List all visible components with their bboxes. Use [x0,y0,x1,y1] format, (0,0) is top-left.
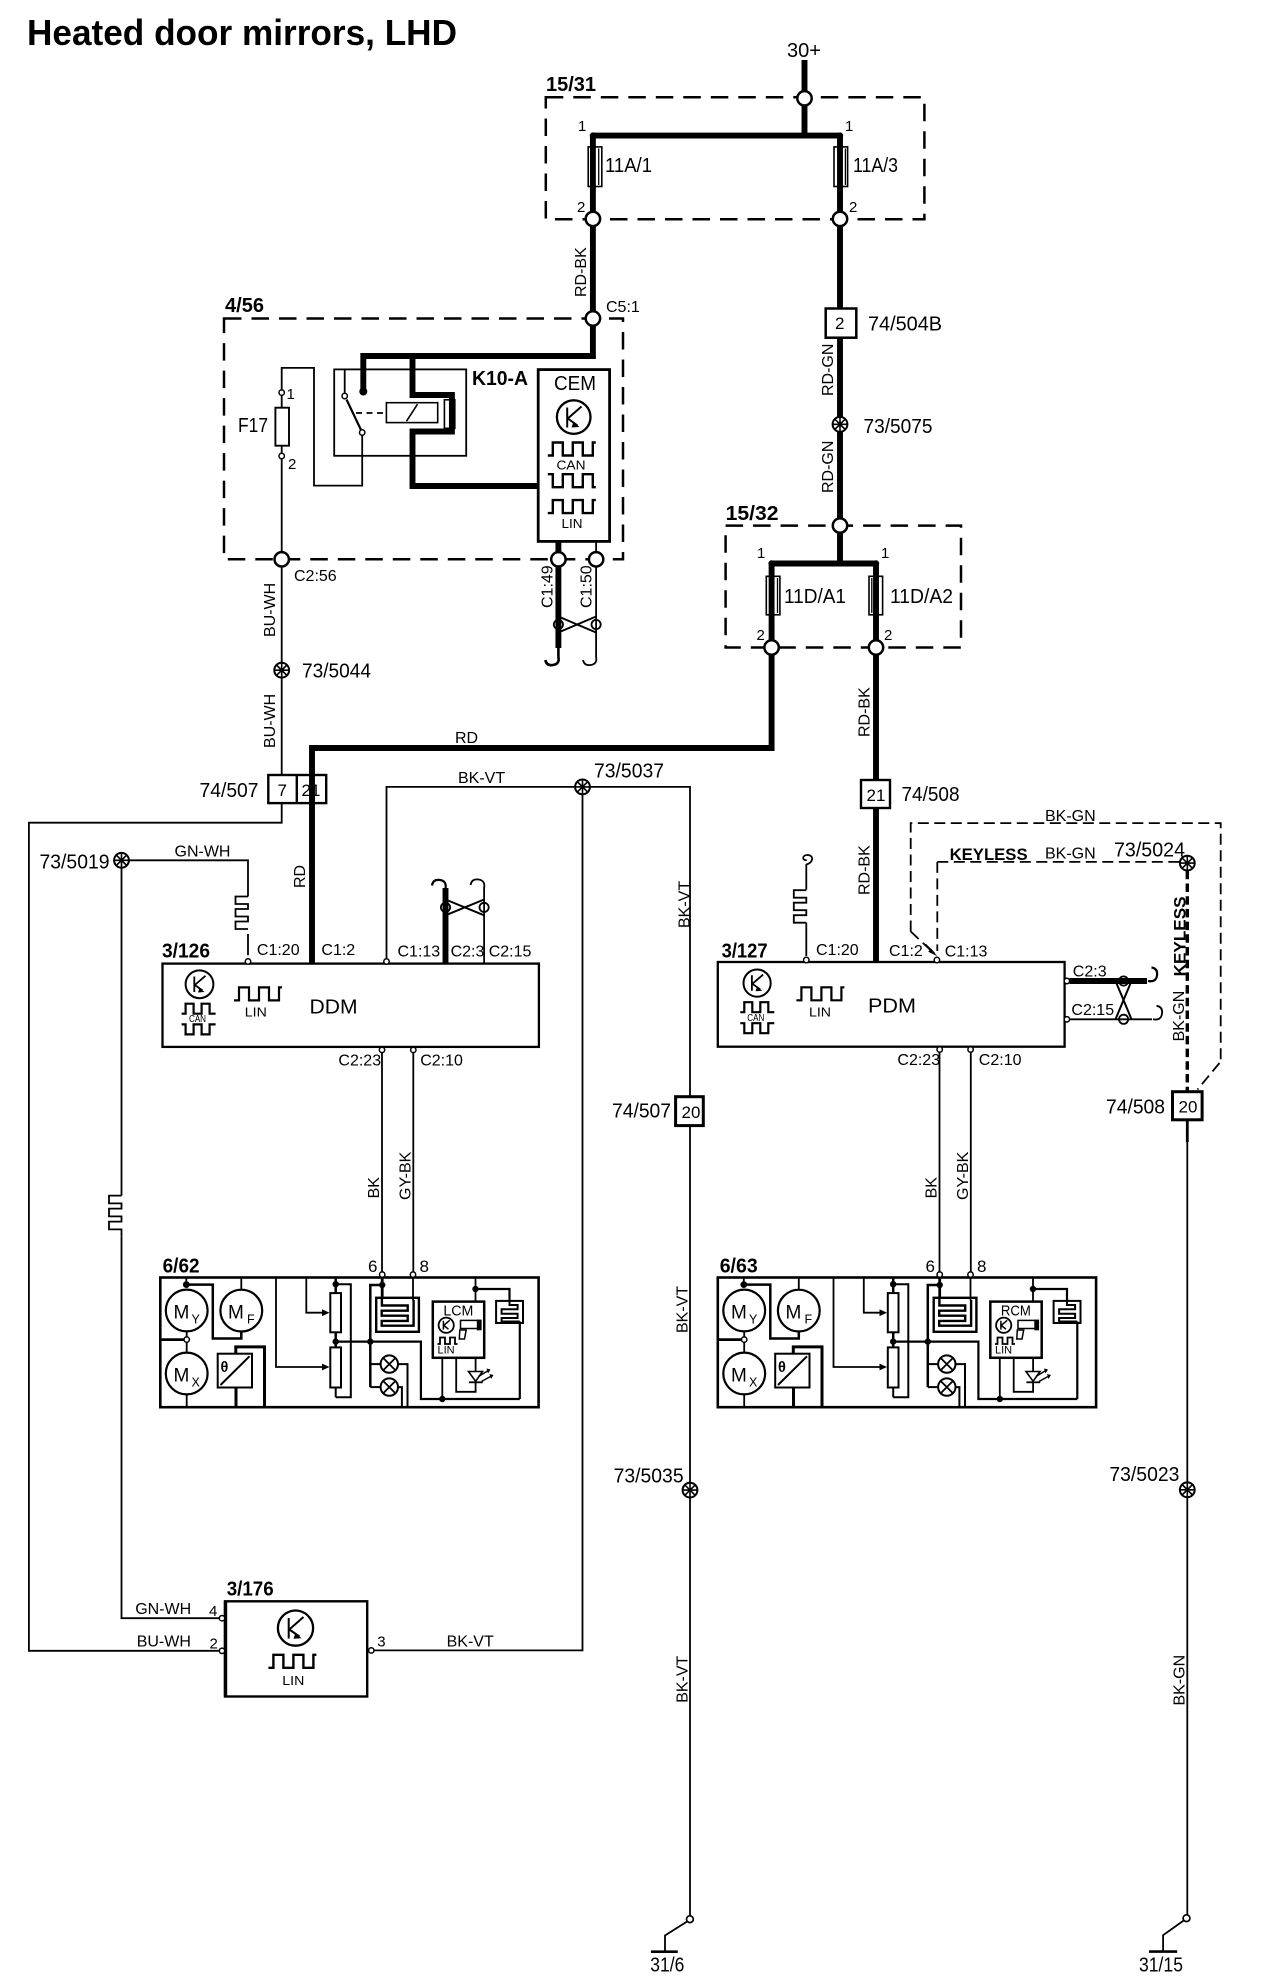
svg-text:C2:3: C2:3 [451,944,485,961]
svg-text:M: M [174,1366,190,1387]
svg-text:C2:56: C2:56 [294,568,337,585]
svg-text:1: 1 [757,545,765,562]
3/176 LIN symbol [268,1655,316,1668]
DDM CAN symbol [182,1004,216,1014]
svg-text:73/5075: 73/5075 [864,416,933,438]
coiled wire symbol on GN-WH run [109,1196,122,1237]
PDM LIN symbol [796,987,844,1000]
svg-text:PDM: PDM [868,996,916,1018]
relay switch arm [347,400,361,430]
svg-text:LIN: LIN [282,1673,304,1688]
wire 30+ feed [802,60,808,92]
fuse 11D/A1 [769,564,775,641]
connector 11D/A1 output [764,640,778,654]
svg-text:BK: BK [366,1177,383,1199]
ground 31/6 [687,1916,694,1923]
relay switch common pin [344,369,346,392]
connector 11D/A2 output [869,640,883,654]
control module CEM [538,370,609,542]
svg-text:GY-BK: GY-BK [397,1151,414,1200]
svg-text:C1:13: C1:13 [945,944,988,961]
svg-text:BK-VT: BK-VT [674,1655,691,1702]
svg-text:LIN: LIN [245,1005,267,1020]
connector 74/508 pin 21 [861,780,890,808]
wire case to junction [160,1338,184,1341]
warning lamp 1 [381,1355,398,1372]
DDM pin C2:10 [411,1047,416,1052]
wire coil feed to CEM [413,356,539,486]
svg-text:F: F [247,1313,255,1327]
connector C at 15/31 bottom left [586,212,600,226]
wire to warning lamp 1 [370,1363,380,1365]
node lamp feed junction [367,1338,373,1344]
wire MY junction to MF [186,1285,241,1339]
wire GY-BK DDM C2:10 to 6/62 pin 8 [412,1053,414,1272]
DDM pin C2:23 [379,1047,384,1052]
svg-text:GN-WH: GN-WH [175,844,231,861]
coiled wire symbol on C1:20 lead [236,897,249,930]
relay box 4/56 dashed outline [224,319,623,560]
svg-text:BK-GN: BK-GN [1045,846,1096,863]
svg-text:3/127: 3/127 [722,941,768,963]
door mirror assembly 6/62 [160,1257,538,1407]
potentiometer horizontal drive [330,1347,341,1387]
svg-text:C2:15: C2:15 [489,944,532,961]
fuse 11D/A2 [873,564,879,641]
wire PDM C2:3 CAN stub [1070,978,1147,984]
svg-text:RD: RD [292,865,309,888]
wire RD-BK from 11A/1 to C5:1 [590,226,596,311]
svg-text:RD-BK: RD-BK [573,247,590,297]
wire RD-GN [837,338,843,417]
svg-text:31/6: 31/6 [650,1955,684,1977]
motor MX (horizontal) [166,1353,208,1395]
LCM torch icon [461,1320,479,1328]
connector C5:1 [586,311,600,325]
svg-text:F17: F17 [238,415,268,437]
svg-text:BU-WH: BU-WH [137,1634,191,1651]
pigtail PDM C2:3 [1148,968,1157,982]
svg-text:2: 2 [577,199,585,216]
svg-text:Heated door mirrors, LHD: Heated door mirrors, LHD [27,12,457,53]
svg-text:73/5044: 73/5044 [302,661,371,683]
wire bus in 15/31 [593,133,840,139]
splice 73/5024 [1180,856,1195,871]
svg-text:2: 2 [835,314,844,333]
node MY top junction [183,1281,190,1288]
svg-text:4/56: 4/56 [225,295,264,317]
motor MY feed stub [185,1278,187,1285]
svg-text:20: 20 [1179,1098,1198,1117]
svg-text:CEM: CEM [554,373,596,395]
PDM pin C1:13 [934,957,939,962]
splice 73/5044 [274,663,289,678]
fuse 11A/1 [590,136,596,212]
svg-text:CAN: CAN [557,458,586,473]
svg-text:11A/1: 11A/1 [605,155,652,177]
svg-text:3: 3 [377,1634,385,1651]
svg-text:7: 7 [278,781,287,800]
connector 74/507 pins 7 and 21 [268,775,326,803]
pin 8 [410,1272,415,1277]
wire BK DDM C2:23 to 6/62 pin 6 [381,1053,383,1272]
svg-text:21: 21 [302,781,321,800]
svg-text:GY-BK: GY-BK [955,1151,972,1200]
motor MF top stub [240,1278,242,1290]
svg-text:15/31: 15/31 [546,74,596,96]
svg-text:2: 2 [849,199,857,216]
splice 73/5019 [114,853,129,868]
svg-text:BK-VT: BK-VT [676,881,693,928]
svg-text:4: 4 [209,1603,217,1620]
svg-text:2: 2 [757,627,765,644]
CEM pin C1:49 [555,541,561,552]
wire DDM C2:15 CAN stub [483,888,485,963]
svg-text:6/63: 6/63 [720,1256,758,1278]
motor MY (vertical) [166,1290,208,1332]
warning lamp 2 [370,1386,380,1388]
twisted pair symbol below CEM [554,620,563,629]
wire heater feed branch [370,1285,382,1387]
PDM pin C1:20 with open lead [804,957,809,962]
connector at 15/32 top [833,518,847,532]
svg-text:C1:2: C1:2 [321,942,355,959]
3/176 pin 3 [369,1648,374,1653]
wire BK-VT to ground [689,1498,691,1916]
DDM LIN symbol [234,987,282,1000]
svg-text:BK: BK [924,1177,941,1199]
wire RD-BK from 11D/A2 down [873,655,879,780]
svg-text:RCM: RCM [1001,1303,1031,1320]
relay coil end cap [444,400,454,429]
svg-text:15/32: 15/32 [726,503,779,525]
wire GY-BK PDM C2:10 to 6/63 pin 8 [970,1052,972,1272]
relay actuation dashed link [356,412,386,414]
wire pot junction to lamp feed [336,1342,520,1399]
svg-text:C2:10: C2:10 [420,1053,463,1070]
svg-text:1: 1 [578,118,586,135]
PDM pin C2:10 [968,1047,973,1052]
svg-text:BU-WH: BU-WH [262,694,279,748]
svg-text:X: X [192,1376,201,1390]
node pin 1 of 11D/A1 [768,560,774,566]
node pin 2 of 11D/A2 [873,624,879,630]
svg-text:11D/A1: 11D/A1 [784,586,846,608]
node LCM ground junction [439,1396,445,1402]
svg-text:C1:50: C1:50 [579,565,596,608]
connector 74/507 pin 20 [676,1097,704,1126]
svg-text:C1:20: C1:20 [257,942,300,959]
svg-text:LIN: LIN [809,1005,831,1020]
svg-text:KEYLESS: KEYLESS [1170,896,1189,976]
wire BU-WH from 74/507 pin 7 to 3/176 pin 2 [29,803,282,1651]
svg-text:CAN: CAN [189,1013,206,1025]
3/176 pin 2 [219,1648,224,1653]
keyless option outer dashed wire BK-GN [911,823,1221,1062]
3/176 K symbol [278,1611,313,1646]
wire MX to case [186,1394,188,1407]
svg-text:θ: θ [221,1360,229,1376]
wire C1:50 CAN lead [595,567,597,649]
ground 31/15 [1183,1915,1190,1922]
svg-text:K10-A: K10-A [472,368,528,390]
wire BK-VT DDM C1:13 to splice to 74/507 pin 20 [387,787,691,1097]
lamp control module box [433,1302,484,1358]
connector at 15/31 bottom right [833,212,847,226]
svg-text:DDM: DDM [310,997,358,1019]
svg-text:1: 1 [287,386,295,403]
wire BU-WH from C2:56 [281,567,283,663]
svg-text:6/62: 6/62 [163,1256,200,1278]
connector 74/508 pin 20 [1173,1092,1203,1120]
svg-text:LIN: LIN [562,516,583,531]
svg-text:C2:3: C2:3 [1073,963,1107,980]
node pin 2 of 11D/A1 [769,624,775,630]
svg-text:LIN: LIN [438,1345,455,1357]
DDM pin C1:13 [384,959,389,964]
svg-text:6: 6 [368,1257,377,1276]
DDM K symbol [186,970,214,998]
wire into 15/32 bus [770,533,877,564]
svg-text:Y: Y [192,1313,201,1327]
wire F17 to C2:56 [281,459,283,552]
splice 73/5035 [683,1483,698,1498]
wire BU-WH to 74/507 pin 7 [281,678,283,775]
fuse 11A/3 [837,136,843,212]
node relay feed terminal [359,388,367,396]
svg-text:LCM: LCM [443,1303,473,1320]
approach lamp heater element [496,1301,523,1323]
svg-text:C1:2: C1:2 [889,943,923,960]
svg-text:BU-WH: BU-WH [262,583,279,637]
LCM LIN symbol [438,1338,458,1345]
wire C1:49 CAN lead [555,567,561,649]
CEM LIN symbol [548,500,596,513]
mirror heater element [376,1298,419,1332]
svg-text:RD: RD [455,730,478,747]
wire BK-VT 74/507 pin 20 down [689,1126,691,1483]
wire DDM C2:3 CAN stub [443,888,449,963]
splice 73/5023 [1180,1482,1195,1497]
svg-text:RD-BK: RD-BK [857,687,874,737]
svg-text:BK-VT: BK-VT [675,1286,692,1333]
svg-text:C2:23: C2:23 [338,1053,381,1070]
svg-text:C5:1: C5:1 [606,299,640,316]
keyless option inner dashed wire [937,862,1180,951]
wire lamp module feed [475,1278,477,1302]
wire RD-GN lower [837,432,843,519]
door mirror module DDM 3/126 [163,964,539,1047]
CEM pin C1:50 [595,541,597,552]
svg-text:GN-WH: GN-WH [135,1601,191,1618]
svg-text:11D/A2: 11D/A2 [890,586,953,608]
PDM pin C2:15 [1064,1017,1069,1022]
svg-text:C2:15: C2:15 [1071,1002,1114,1019]
wire relay switch to F17 [282,368,363,486]
pigtail C1:49 [545,648,558,665]
wire BK-GN 74/508 pin 20 down [1186,1120,1189,1142]
svg-text:74/504B: 74/504B [868,314,942,336]
DDM pin C1:20 [245,959,250,964]
node pin 1 of 11A/3 [837,132,843,138]
twisted pair symbol right of PDM [1119,976,1128,985]
pin 6 [380,1272,385,1277]
svg-text:73/5023: 73/5023 [1109,1464,1179,1486]
svg-text:20: 20 [682,1103,701,1122]
wire into fuse box bus [802,105,808,138]
svg-text:3/126: 3/126 [162,941,210,963]
wire MY bottom to junction [186,1331,188,1336]
wiper arrow pot 2 [276,1278,322,1368]
node between potentiometers [334,1332,337,1347]
svg-text:KEYLESS: KEYLESS [950,845,1028,864]
svg-text:73/5035: 73/5035 [614,1466,684,1488]
wiper arrow pot 1 [306,1278,322,1313]
svg-text:21: 21 [867,786,886,805]
wire junction to MX [186,1342,188,1352]
svg-text:3/176: 3/176 [227,1579,274,1601]
fuse F17 [279,390,284,395]
wire BK-VT splice down to 3/176 pin 3 [374,794,583,1650]
svg-text:BK-GN: BK-GN [1172,1655,1189,1706]
motor MF (fold) [220,1290,262,1332]
svg-text:BK-VT: BK-VT [458,770,505,787]
svg-text:C1:49: C1:49 [540,565,557,608]
connector 74/504B pin 2 [826,309,857,338]
heater thermostat box [218,1354,252,1388]
door mirror assembly 6/63 (same internals as 6/62) [718,1257,1096,1407]
svg-text:74/507: 74/507 [200,780,259,802]
wire BK-GN to ground [1186,1497,1188,1915]
connector circle at 15/31 top [797,91,811,105]
wire RD-GN from 11A/3 down [837,226,843,308]
svg-text:2: 2 [288,456,296,473]
connector C2:56 [275,552,289,566]
wire GN-WH splice to DDM C1:20 [129,860,248,955]
node pin 2 of 11A/3 [837,195,842,200]
svg-text:1: 1 [845,118,853,135]
fuse box 15/31 dashed outline [546,97,925,219]
coiled wire symbol on PDM C1:20 lead [794,890,807,923]
svg-text:31/15: 31/15 [1139,1954,1183,1976]
LCM ground lead [441,1358,443,1399]
LCM K symbol [439,1318,454,1333]
svg-text:74/507: 74/507 [612,1101,671,1123]
svg-text:1: 1 [881,545,889,562]
wire GN-WH splice down to 3/176 pin 4 [122,868,220,1618]
svg-text:2: 2 [210,1636,218,1653]
wire BK PDM C2:23 to 6/63 pin 6 [939,1052,941,1272]
node pin 2 of 11A/1 [590,195,595,200]
svg-text:73/5024: 73/5024 [1114,840,1185,862]
pigtail PDM C2:15 [1153,1006,1162,1020]
node pin 1 of 11A/1 [590,132,596,138]
svg-text:C1:13: C1:13 [398,944,441,961]
twisted pair symbol above DDM [441,903,450,912]
splice 73/5037 [575,780,590,795]
svg-text:BK-GN: BK-GN [1171,991,1188,1042]
PDM pin C2:3 [1064,978,1069,983]
svg-text:CAN: CAN [747,1012,764,1024]
steering module 3/176 [225,1601,367,1696]
PDM pin C2:23 [937,1047,942,1052]
svg-text:74/508: 74/508 [902,784,960,806]
potentiometer vertical drive [334,1278,337,1294]
keyless thick dashed wire to 74/508 pin 20 [1186,871,1189,1092]
svg-text:74/508: 74/508 [1106,1097,1165,1119]
thermostat bracket wiring [236,1347,265,1407]
3/176 pin 4 [219,1616,224,1621]
node pin 1 of 11D/A2 [873,560,879,566]
relay coil [386,403,437,423]
wiper return wire [336,1284,351,1397]
pigtail C2:3 [432,880,446,889]
CEM K symbol [557,400,591,434]
svg-text:RD-GN: RD-GN [820,441,837,493]
broken wire squiggle [803,855,812,865]
wire RD-BK to PDM C1:2 [873,808,879,961]
node MY/MX junction [184,1337,189,1342]
LED indicator circuit [456,1358,475,1392]
svg-text:C2:23: C2:23 [897,1052,940,1069]
svg-text:M: M [174,1303,190,1324]
wire RD from 11D/A1 to DDM C1:2 [312,655,772,963]
svg-text:BK-VT: BK-VT [447,1634,494,1651]
svg-text:C1:20: C1:20 [816,942,859,959]
wire PDM C2:15 CAN stub [1070,1018,1152,1020]
CEM CAN symbol [548,443,596,456]
svg-text:73/5037: 73/5037 [594,761,664,783]
svg-text:C2:10: C2:10 [979,1052,1022,1069]
PDM CAN symbol [740,1002,774,1012]
fuse box 15/32 dashed outline [726,526,961,648]
svg-text:M: M [228,1303,244,1324]
pigtail C1:50 [583,648,596,665]
svg-text:73/5019: 73/5019 [40,852,110,874]
svg-text:RD-GN: RD-GN [820,344,837,396]
svg-text:BK-GN: BK-GN [1045,808,1096,825]
svg-text:11A/3: 11A/3 [853,155,898,177]
wire from C5:1 into relay [363,326,593,389]
pigtail C2:15 [471,879,485,888]
svg-text:8: 8 [420,1257,429,1276]
splice 73/5075 [833,417,848,432]
relay K10-A [334,369,466,455]
mirror housing box [160,1278,538,1408]
power mirror module PDM 3/127 [718,962,1065,1047]
PDM K symbol [744,970,771,997]
svg-text:2: 2 [884,627,892,644]
svg-text:30+: 30+ [787,40,821,62]
svg-text:RD-BK: RD-BK [857,845,874,895]
